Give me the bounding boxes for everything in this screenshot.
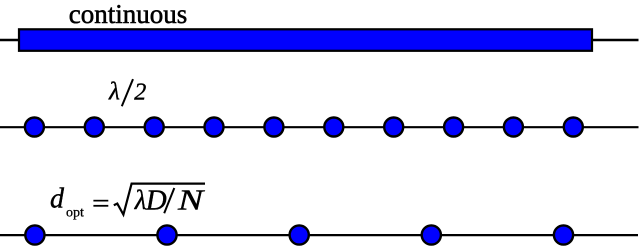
wire row1 left — [0, 39, 19, 41]
antenna element row2 #2 — [85, 118, 104, 137]
label "lambda/2" solidus — [122, 79, 133, 106]
antenna element row3 #4 — [422, 225, 441, 244]
wire row3 — [0, 234, 638, 236]
antenna element row2 #6 — [324, 118, 343, 137]
antenna element row2 #7 — [384, 118, 403, 137]
antenna element row2 #5 — [264, 118, 283, 137]
formula solidus — [164, 188, 174, 213]
svg-text:continuous: continuous — [69, 0, 188, 29]
antenna element row2 #1 — [25, 118, 44, 137]
svg-text:2: 2 — [134, 80, 146, 106]
formula equals sign bottom bar — [93, 205, 108, 207]
svg-text:D: D — [145, 184, 167, 216]
wire row2 — [0, 126, 639, 128]
svg-text:N: N — [177, 185, 205, 217]
antenna element row2 #8 — [444, 118, 463, 137]
antenna element row3 #3 — [290, 225, 309, 244]
formula radical sign — [114, 184, 205, 215]
svg-text:d: d — [50, 184, 65, 215]
antenna element row2 #10 — [564, 118, 583, 137]
antenna element row3 #1 — [25, 225, 44, 244]
antenna element row2 #3 — [145, 118, 164, 137]
antenna element row3 #2 — [157, 225, 176, 244]
wire row1 right — [592, 39, 639, 41]
svg-text:λ: λ — [108, 79, 120, 106]
formula equals sign top bar — [93, 200, 108, 202]
svg-text:opt: opt — [66, 206, 84, 221]
continuous aperture bar — [19, 29, 592, 51]
antenna element row2 #9 — [504, 118, 523, 137]
antenna element row3 #5 — [554, 225, 573, 244]
antenna element row2 #4 — [205, 118, 224, 137]
